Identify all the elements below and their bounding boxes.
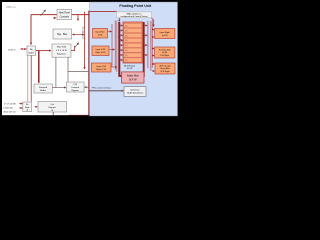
wire: R1 stubs: [152, 29, 154, 31]
annotation arrow register file: [118, 36, 122, 41]
svg-text:4 F W: 4 F W: [127, 68, 133, 70]
wire: vertical bus x84.6 with label: [84, 12, 86, 69]
blue FPU panel: [90, 2, 178, 116]
wire: right bus lines: [147, 21, 149, 68]
svg-text:Input 4 RF: Input 4 RF: [96, 65, 106, 68]
block: Rx buffer: [27, 46, 36, 56]
svg-text:A W art right: A W art right: [159, 64, 170, 67]
svg-text:16 F W: 16 F W: [129, 78, 137, 81]
wire: arrow into Rx left: [24, 48, 26, 50]
svg-text:Buffer: Buffer: [28, 51, 34, 54]
svg-text:(x4 R): (x4 R): [162, 35, 168, 37]
block: input mux L1: [93, 29, 108, 39]
bus bar right: [142, 22, 144, 76]
block: formula mult R2: [155, 47, 175, 58]
svg-text:Floating Point Unit: Floating Point Unit: [119, 3, 151, 8]
block: serial node: [23, 102, 32, 112]
wire: mux drop to C link: [55, 57, 57, 87]
svg-text:W R Right: W R Right: [160, 70, 170, 73]
svg-text:Serial Mult: Serial Mult: [160, 67, 170, 70]
wire: drop from out register: [52, 112, 54, 115]
svg-text:4 F 4 16 W: 4 F 4 16 W: [56, 50, 68, 52]
svg-text:Adder Mult: Adder Mult: [127, 74, 139, 77]
svg-text:LBNL rev: LBNL rev: [6, 6, 17, 9]
svg-text:Input Right: Input Right: [160, 31, 170, 34]
svg-text:Full Right: Full Right: [160, 54, 169, 57]
svg-text:Forward: Forward: [72, 87, 79, 89]
wire: left bus lines: [111, 24, 113, 67]
svg-text:16 bit in: 16 bit in: [8, 48, 16, 51]
block: out register: [38, 102, 67, 113]
wire: caption drop right: [152, 18, 154, 27]
wire: mux drop to D top and branch right: [68, 57, 89, 81]
svg-text:Register: Register: [48, 106, 56, 109]
svg-text:Right (4 R): Right (4 R): [95, 51, 105, 54]
wire: stub into controls box: [53, 17, 56, 19]
wire: L2 stub: [109, 49, 114, 51]
wire: feed to caption box: [89, 11, 116, 13]
wire: thick drop to forward buffer: [38, 51, 40, 83]
svg-text:8202 007 0G: 8202 007 0G: [4, 111, 16, 113]
wire: branch into D right: [85, 86, 89, 88]
svg-text:FPU control interface: FPU control interface: [92, 87, 112, 90]
svg-text:17 17.25 MX: 17 17.25 MX: [4, 103, 16, 105]
svg-text:Input 4 RF: Input 4 RF: [96, 48, 106, 51]
block: input L2: [92, 46, 109, 56]
block: serial mult R3: [155, 63, 175, 74]
block: pixel controls box: [57, 10, 72, 20]
wire: long arrow to device box: [89, 90, 124, 92]
svg-text:Register: Register: [71, 89, 79, 92]
wire: drop with arrow x78: [77, 15, 79, 21]
svg-text:64 Device: 64 Device: [130, 89, 140, 91]
wire: C to D link: [52, 87, 66, 89]
wire: arrow out left from Rx: [21, 48, 27, 50]
wire: Rx to Mux: [36, 50, 51, 52]
block: device box: [124, 87, 146, 97]
wire: arrow into out register: [35, 106, 38, 108]
svg-text:(4 W): (4 W): [162, 52, 167, 54]
svg-text:MAC pipeline on: MAC pipeline on: [127, 12, 142, 15]
wire: caption drop left: [118, 18, 120, 22]
svg-text:Controls: Controls: [60, 16, 70, 19]
block: input L3: [92, 63, 112, 72]
bus bar left: [119, 22, 121, 76]
wire: double arrow sig to bus: [72, 34, 83, 36]
wire: red boundary left edge into Rx buffer: [30, 15, 32, 45]
wire: row arrows left: [121, 26, 123, 61]
svg-text:(4 R): (4 R): [98, 35, 103, 37]
block: P16 forward register: [66, 82, 84, 92]
svg-text:L2000 50s: L2000 50s: [4, 107, 14, 109]
svg-text:Buffer: Buffer: [40, 89, 46, 92]
wire: long dark red boundary line: [88, 11, 90, 116]
block: adder mult pink: [122, 72, 145, 83]
svg-text:Registers: Registers: [57, 52, 67, 55]
block: caption box: [117, 12, 152, 18]
svg-text:Mux 9/16: Mux 9/16: [57, 47, 67, 49]
svg-text:configured and Control Timing: configured and Control Timing: [121, 15, 148, 18]
svg-text:Input Mux: Input Mux: [95, 31, 105, 34]
block: sig bus box: [53, 29, 72, 39]
annotation arrow mux: [75, 43, 79, 48]
svg-text:Out: Out: [51, 103, 55, 106]
wire: arrows into serial node: [19, 103, 22, 105]
wire: bottom edge segment: [69, 114, 90, 116]
svg-text:New Pixel: New Pixel: [59, 12, 71, 15]
svg-text:Right (4 R): Right (4 R): [96, 68, 106, 71]
svg-text:Sig - Bus: Sig - Bus: [57, 33, 68, 36]
wire: R3 stubs: [152, 63, 154, 65]
svg-text:16 bit data bus: 16 bit data bus: [82, 26, 85, 39]
wire: L3 stub: [111, 66, 117, 68]
svg-text:16-Bit data blocks: 16-Bit data blocks: [127, 92, 144, 95]
svg-text:Formula Mult: Formula Mult: [159, 48, 171, 51]
annotation arrow top: [41, 10, 46, 16]
wire: red boundary top edge: [31, 14, 89, 16]
slide white area: [2, 2, 178, 115]
block: input right R1: [155, 29, 175, 39]
block: register file: [123, 22, 143, 63]
block: forward buffer: [34, 84, 52, 93]
svg-text:Forward: Forward: [39, 86, 48, 89]
wire: mux out right with up annotation: [71, 46, 75, 51]
black frame background: [0, 0, 180, 127]
wire: row arrows right: [145, 26, 148, 56]
block: mux registers: [52, 44, 71, 57]
wire: R2 stubs: [152, 48, 154, 50]
svg-text:Mux B Input: Mux B Input: [124, 64, 136, 67]
wire: L1 stub: [108, 31, 112, 33]
wire: verticals below Rx: [27, 56, 29, 102]
